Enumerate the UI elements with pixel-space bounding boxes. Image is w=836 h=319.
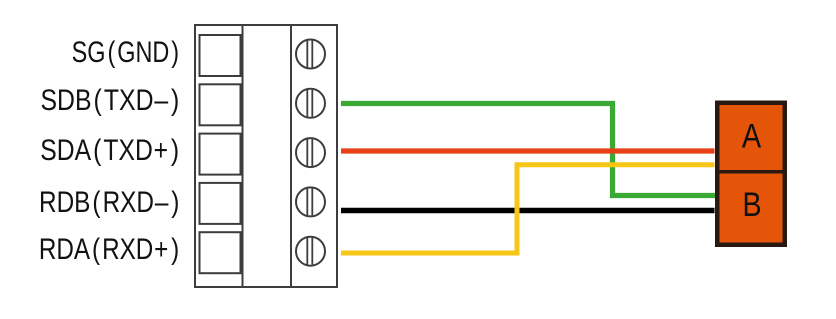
pin label RDB(RXD-) [39,188,181,218]
pin label RDA(RXD+) [39,235,181,265]
svg-text:B: B [742,185,761,224]
RS-485 connector divider [715,170,787,174]
pin label SDB(TXD-) [40,86,181,116]
pin label SG(GND) [72,38,181,68]
pin 5 square RDA [200,232,241,273]
wire yellow RDA(RXD+) to A [341,165,715,253]
wire red SDA(TXD+) to A [341,148,715,153]
screw terminal 1 [296,40,325,69]
pin label SDA(TXD+) [40,136,181,166]
wire black RDB(RXD-) to B [341,208,715,214]
pin 1 square SG [200,35,241,76]
terminal block J1 outline [195,25,337,287]
screw terminal 2 [296,89,325,118]
screw terminal 5 [296,237,325,266]
screw terminal 3 [296,138,325,167]
pin 2 square SDB [200,84,241,125]
terminal block divider 2 [290,25,292,287]
RS-485 connector body [717,103,785,245]
wire green SDB(TXD-) to B [341,104,715,196]
screw terminal 4 [296,187,325,216]
pin 3 square SDA [200,134,241,175]
svg-text:A: A [742,116,761,155]
terminal block divider 1 [242,25,244,287]
pin 4 square RDB [200,183,241,224]
